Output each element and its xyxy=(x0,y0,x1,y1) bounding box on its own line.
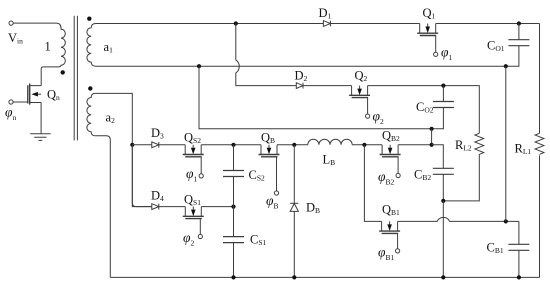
svg-text:φ1: φ1 xyxy=(186,166,197,184)
svg-text:Q1: Q1 xyxy=(423,6,436,21)
wire D4 row from x132 xyxy=(132,145,152,207)
wire input to primary xyxy=(13,22,56,24)
mosfet QB1 xyxy=(379,221,400,248)
wire top rail a1 to right edge xyxy=(96,23,540,25)
capacitor CS1 xyxy=(223,207,244,278)
node top rail junction xyxy=(234,21,238,25)
svg-text:Q2: Q2 xyxy=(355,69,368,84)
ground xyxy=(30,134,50,141)
svg-text:a2: a2 xyxy=(106,111,116,126)
a1 polarity dot xyxy=(87,17,91,21)
wire a2 top to D3 xyxy=(95,93,152,206)
wire LB junction down to QB1 row xyxy=(364,145,381,222)
terminal phiB2 of QB2 xyxy=(396,173,400,177)
capacitor Co1 xyxy=(506,24,530,67)
diode D2 xyxy=(296,83,303,89)
diode D3 xyxy=(152,142,159,148)
svg-text:φn: φn xyxy=(5,104,16,122)
node rail CB1 xyxy=(517,275,521,279)
wire link x431.6 xyxy=(431,129,433,145)
svg-text:LB: LB xyxy=(323,153,336,168)
svg-text:QB1: QB1 xyxy=(382,203,400,218)
a2 polarity dot xyxy=(88,86,92,90)
terminal phi2 of QS1 xyxy=(198,234,202,238)
svg-text:CS2: CS2 xyxy=(249,168,266,183)
node Co2 bottom at x431.6 xyxy=(430,127,434,131)
transistor Qn xyxy=(13,84,41,105)
wire bottom rail xyxy=(110,276,539,278)
wire main row xyxy=(132,144,431,146)
wire right edge xyxy=(539,24,541,278)
secondary winding a1 xyxy=(87,24,96,67)
svg-text:Qn: Qn xyxy=(47,88,60,103)
svg-text:φB2: φB2 xyxy=(378,169,394,187)
node Q2 drain Co2 xyxy=(441,84,445,88)
capacitor CB1 xyxy=(508,221,529,277)
terminal phiB of QB xyxy=(274,191,278,195)
svg-text:φ1: φ1 xyxy=(441,45,452,63)
inductor LB xyxy=(308,139,352,145)
resistor RL2 xyxy=(443,133,483,201)
node row CS2 xyxy=(231,143,235,147)
terminal phi1 of QS2 xyxy=(199,174,203,178)
node QS1 drain CS mid xyxy=(231,205,235,209)
mosfet QB2 xyxy=(380,145,401,174)
node rail DB xyxy=(292,275,296,279)
mosfet QS2 xyxy=(183,145,204,174)
svg-text:CS1: CS1 xyxy=(250,233,267,248)
node D3 anode xyxy=(130,143,134,147)
diode D1 xyxy=(323,21,330,27)
secondary winding a2 xyxy=(87,93,95,135)
svg-text:φ2: φ2 xyxy=(373,109,384,127)
node x506 top xyxy=(504,64,508,68)
capacitor Co2 xyxy=(199,66,454,129)
node rail CB2 xyxy=(441,275,445,279)
svg-text:a1: a1 xyxy=(104,40,114,55)
svg-text:CO2: CO2 xyxy=(416,100,434,115)
svg-text:RL2: RL2 xyxy=(455,138,472,153)
svg-text:φB: φB xyxy=(266,193,278,211)
mosfet QB xyxy=(259,145,280,191)
svg-text:D3: D3 xyxy=(151,126,164,141)
input terminal Vin xyxy=(9,21,13,25)
wire Qn source to ground xyxy=(40,103,42,134)
terminal phi_n xyxy=(9,100,13,104)
terminal phi1 of Q1 xyxy=(434,52,438,56)
svg-text:CO1: CO1 xyxy=(487,38,505,53)
node LB right xyxy=(362,143,366,147)
svg-text:φB1: φB1 xyxy=(378,245,394,263)
svg-text:φ2: φ2 xyxy=(183,230,194,248)
wire D4 to QS1 xyxy=(159,206,234,208)
svg-text:DB: DB xyxy=(306,201,320,216)
svg-text:CB2: CB2 xyxy=(414,168,431,183)
terminal phi2 of Q2 xyxy=(366,114,370,118)
node a1 bottom junction xyxy=(197,64,201,68)
resistor RL1 xyxy=(535,133,544,154)
diode DB vertical xyxy=(290,145,298,278)
svg-text:D2: D2 xyxy=(295,69,308,84)
svg-text:QB2: QB2 xyxy=(382,129,400,144)
wire CB2 bottom to rail xyxy=(442,201,444,278)
node rail CS1 xyxy=(231,275,235,279)
transformer primary winding 1 xyxy=(41,23,65,86)
node Co1 top xyxy=(517,21,521,25)
wire a1 bottom rail xyxy=(96,65,506,67)
terminal phiB1 of QB1 xyxy=(396,249,400,253)
node QB2 drain xyxy=(430,143,434,147)
svg-text:CB1: CB1 xyxy=(487,241,504,256)
wire QB1 row with hop over CB2 wire xyxy=(398,217,519,221)
mosfet QS1 xyxy=(183,207,204,235)
primary polarity dot xyxy=(61,70,65,74)
svg-text:RL1: RL1 xyxy=(515,142,532,157)
node x506 bottom xyxy=(504,219,508,223)
wire a2 bottom to rail xyxy=(95,136,110,278)
svg-text:Vin: Vin xyxy=(8,31,23,46)
svg-text:D4: D4 xyxy=(151,189,164,204)
svg-text:QS1: QS1 xyxy=(184,193,201,208)
svg-text:D1: D1 xyxy=(319,6,332,21)
wire D2 Q2 row xyxy=(303,86,479,134)
capacitor CS2 xyxy=(223,145,244,207)
mosfet Q1 xyxy=(417,24,438,53)
wire x506 vertical xyxy=(505,66,507,221)
mosfet Q2 xyxy=(349,86,370,114)
diode D4 xyxy=(152,204,159,210)
transformer core xyxy=(74,16,77,141)
capacitor CB2 xyxy=(432,145,454,201)
svg-text:QS2: QS2 xyxy=(184,131,201,146)
node QB drain DB xyxy=(292,143,296,147)
svg-text:1: 1 xyxy=(45,40,51,54)
node CB2 bottom RL2 xyxy=(441,199,445,203)
wire vertical from top rail with hop over a1 rail xyxy=(236,24,296,86)
svg-text:QB: QB xyxy=(261,131,275,146)
